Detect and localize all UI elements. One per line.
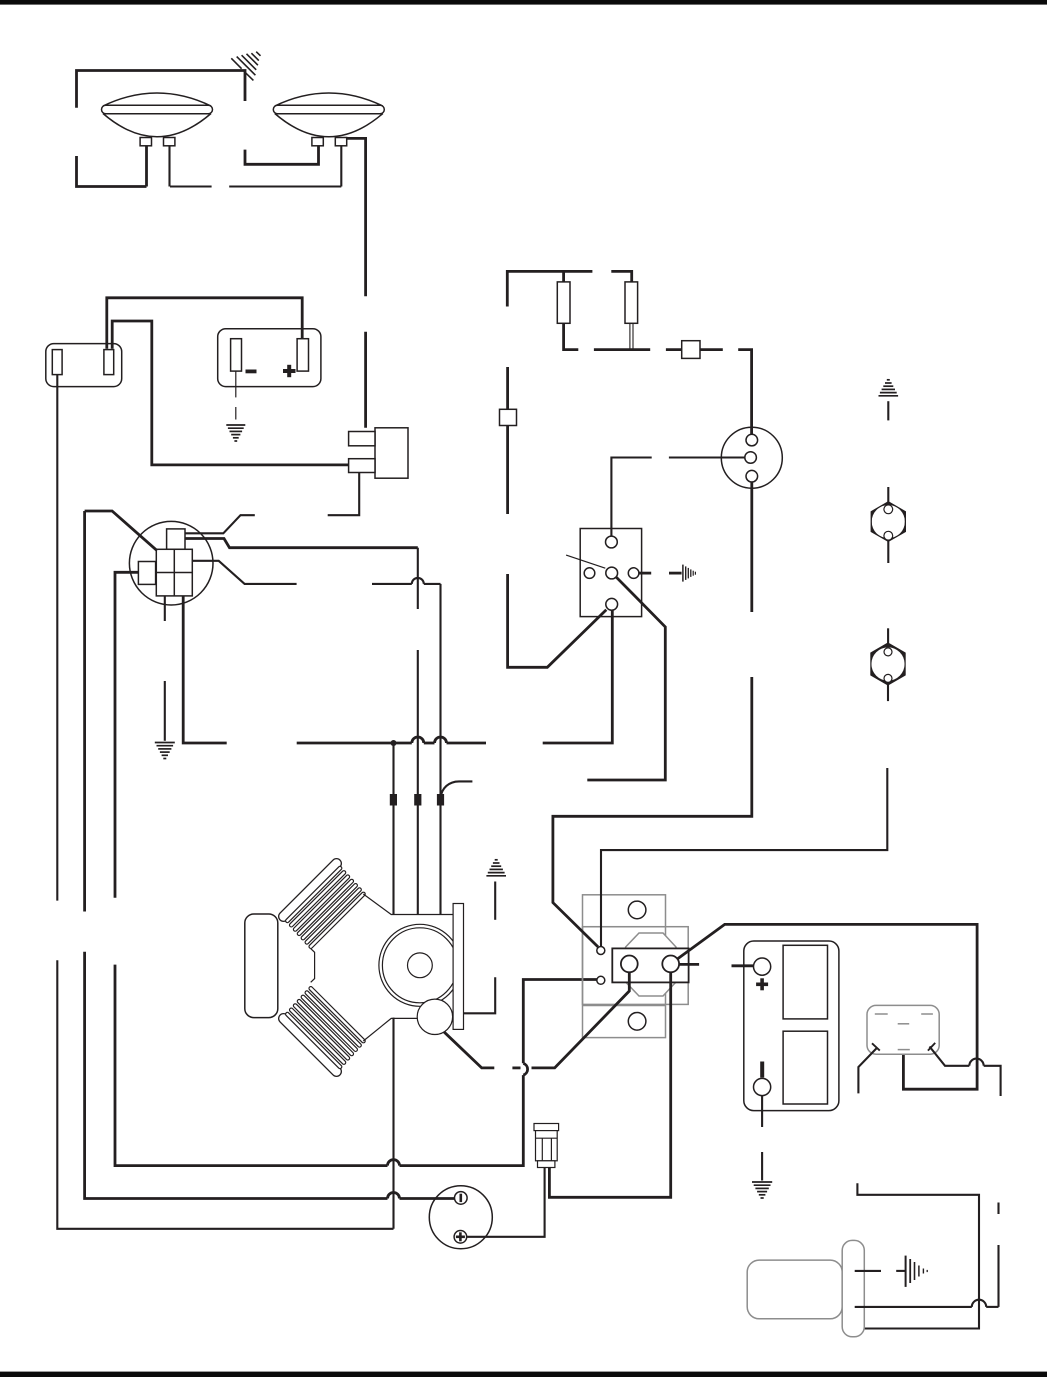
wire ignition S to starter solenoid coil (dashed)	[115, 572, 597, 1165]
wire sender signal with hop	[855, 1306, 972, 1308]
wire headlamp1 right terminal feed	[168, 146, 170, 187]
fuel tank	[747, 1260, 842, 1319]
solenoid coil terminal bottom	[597, 976, 605, 984]
wire fuel solenoid to ammeter plus	[467, 1168, 544, 1237]
wire solenoid left terminal to starter	[444, 972, 629, 1068]
solenoid coil terminal top	[597, 947, 605, 955]
minus label	[246, 370, 257, 374]
hour meter	[721, 427, 782, 488]
headlamp 1	[102, 93, 213, 146]
ignition switch	[129, 521, 213, 605]
wire battery minus to ground (dashed)	[761, 1096, 763, 1181]
spark plug boot marks	[390, 794, 397, 806]
wire interlock right to ground (dashed)	[639, 572, 682, 575]
connector square (fuse rail)	[682, 341, 700, 359]
connector hex 2	[871, 643, 905, 685]
engine flywheel	[379, 924, 461, 1006]
engine hub	[408, 953, 433, 978]
wire solenoid right to fuel solenoid	[549, 972, 670, 1197]
wire battery minus to ground (dashed)	[235, 371, 237, 419]
solenoid terminal block	[612, 948, 688, 982]
wire ignition to interlock (dashed rail y743)	[183, 596, 612, 743]
fuel shutoff solenoid	[534, 1124, 559, 1168]
wire fuel pump left lead (dashed)	[855, 1048, 979, 1329]
ground (right chain top)	[879, 380, 899, 396]
wire connector to light switch feed	[112, 321, 348, 465]
wire engine to ground (dashed)	[464, 882, 496, 1014]
kill wire hook curve	[441, 781, 473, 798]
solenoid terminal left	[621, 956, 638, 973]
wire junction to magneto 1	[392, 743, 394, 915]
wire headlamp2 left terminal to chassis	[245, 146, 319, 165]
headlamp 2	[273, 93, 384, 146]
solenoid terminal right	[662, 956, 679, 973]
bottom border bar	[0, 1372, 1047, 1377]
wire ignition battery terminal diagonal	[85, 511, 157, 551]
interlock feed dashed vertical	[508, 367, 607, 667]
wire hour meter to solenoid small top (dashed)	[553, 482, 752, 947]
ground (interlock, fade)	[683, 565, 696, 582]
wire magneto 2 drop (dashed)	[417, 548, 419, 915]
chassis hatching at corner	[231, 52, 260, 81]
starter solenoid bracket	[583, 895, 689, 1038]
chassis dashed outline around headlamps	[77, 71, 342, 187]
wire ignition M to magneto (dashed rail y584)	[192, 561, 440, 584]
top border bar	[0, 0, 1047, 5]
plus label	[283, 365, 296, 377]
fuel gauge sender	[842, 1240, 864, 1336]
wire connector pin to magneto rail (dashed)	[57, 375, 393, 1229]
wire interlock top to hour meter (dashed)	[611, 458, 745, 537]
engine starter gear	[417, 999, 452, 1034]
safety circuit dashed chain	[601, 401, 888, 946]
light switch	[349, 428, 408, 478]
ground (engine)	[486, 860, 506, 876]
connector square (interlock feed)	[500, 409, 517, 425]
wire fuel pump right lead (dashed)	[930, 1047, 1001, 1307]
ground (fuel sender, fade)	[896, 1256, 927, 1287]
wire solenoid right to battery plus (dash)	[679, 964, 753, 965]
wire headlamp feed to light switch	[347, 138, 366, 296]
battery charging connector	[218, 329, 321, 387]
engine block	[245, 914, 278, 1018]
engine bracket	[453, 904, 463, 1030]
wire light switch to ignition acc (dashed)	[185, 473, 359, 534]
fuse 2	[625, 282, 638, 323]
fuse rail top	[507, 271, 631, 306]
ground (battery connector minus)	[226, 425, 245, 441]
wire sender to ground (dashed)	[855, 1270, 881, 1272]
wire interlock center to magneto kill (dashed)	[587, 577, 665, 780]
wire headlamp1 left terminal to chassis	[145, 146, 148, 187]
engine	[245, 864, 464, 1072]
wire magneto 3 drop	[439, 584, 441, 915]
ground (ignition)	[155, 743, 175, 759]
wire ignition ground terminal (dashed)	[164, 596, 166, 741]
interlock module	[566, 529, 642, 617]
battery	[744, 941, 839, 1111]
connector 2-pin	[46, 344, 122, 387]
wire ignition B to headlight rail	[185, 539, 418, 548]
wire ignition to ammeter (left drop, dashed)	[85, 511, 455, 1199]
engine cylinder lower fins	[284, 988, 364, 1071]
wire solenoid right to fuel pump	[678, 924, 978, 1089]
ammeter	[429, 1186, 492, 1249]
fuel pump	[867, 1005, 939, 1054]
engine cylinder upper fins	[284, 864, 364, 947]
wire fuse2 out (double thin)	[630, 323, 633, 349]
wire battery plus feed (top loop)	[107, 298, 302, 349]
ground (battery)	[752, 1182, 772, 1198]
wire headlamp2 right terminal feed	[340, 146, 342, 187]
junction dot	[391, 740, 397, 746]
wire fuse1 out	[564, 323, 579, 349]
connector hex 1	[871, 502, 905, 542]
engine body	[311, 894, 453, 1041]
fuse output rail (dashed) to hour meter	[594, 350, 752, 435]
fuse 1	[557, 282, 570, 323]
